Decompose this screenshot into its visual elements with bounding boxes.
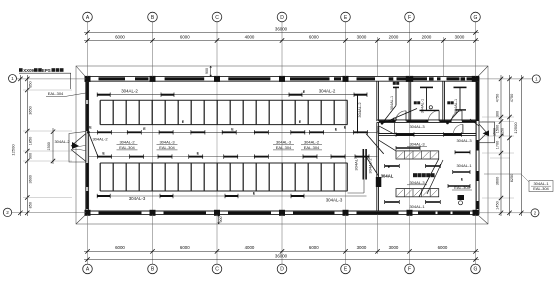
- bubble F top: [405, 12, 415, 22]
- svg-text:304AL-3: 304AL-3: [409, 124, 425, 129]
- svg-text:304AL-2: 304AL-2: [119, 139, 135, 144]
- room partition wall 1: [376, 81, 378, 121]
- svg-text:850: 850: [28, 81, 32, 87]
- svg-text:3000: 3000: [455, 35, 465, 40]
- leader to boxed label: [484, 173, 521, 175]
- left wall fill bars: [86, 82, 88, 100]
- right segment dimension line: [500, 75, 502, 216]
- corridor wall bar 2: [444, 133, 462, 135]
- bubble 2 right: [531, 209, 539, 217]
- svg-text:304AL-3: 304AL-3: [129, 196, 146, 201]
- svg-text:1500: 1500: [47, 142, 51, 150]
- tray stub r1b: [455, 151, 470, 153]
- annex outline: [479, 122, 495, 143]
- svg-text:304AL-2: 304AL-2: [304, 139, 320, 144]
- svg-text:6000: 6000: [115, 35, 125, 40]
- svg-text:1700: 1700: [496, 141, 500, 149]
- svg-text:304AL-2: 304AL-2: [319, 89, 336, 94]
- svg-text:304AL-3: 304AL-3: [276, 139, 292, 144]
- wiring junction room2: [446, 122, 449, 125]
- wire to mid line 2: [88, 132, 98, 156]
- left door vestibule: [69, 132, 86, 163]
- dim 900 top: [210, 66, 212, 76]
- EPS feeder note: [19, 68, 23, 72]
- dim 900 bottom: [218, 215, 220, 224]
- svg-text:D: D: [280, 15, 284, 21]
- bubble E top: [341, 12, 351, 22]
- bubble 1 right: [532, 75, 540, 83]
- label cabinet cn: [413, 173, 417, 177]
- svg-text:304AL-1: 304AL-1: [390, 96, 394, 110]
- busway line bottom: [97, 195, 367, 197]
- svg-text:304AL-2: 304AL-2: [54, 139, 70, 144]
- svg-text:304AL-2: 304AL-2: [357, 102, 362, 118]
- bubble E bottom: [341, 264, 351, 274]
- svg-text:304AL-3: 304AL-3: [159, 139, 175, 144]
- svg-text:1850: 1850: [28, 137, 32, 145]
- column G/1: [472, 76, 479, 82]
- exhaust fan room 2: [429, 77, 434, 80]
- distribution box E: [458, 195, 465, 200]
- wall fill block: [376, 177, 382, 187]
- svg-text:EPS: EPS: [42, 68, 51, 73]
- wiring diagonal corridor top: [379, 126, 394, 134]
- svg-text:G: G: [474, 15, 478, 21]
- room partition wall 3: [442, 81, 444, 121]
- left segment dimension line: [26, 75, 28, 216]
- light fixture room 3: [454, 86, 467, 88]
- ladder2 bracket: [348, 192, 365, 194]
- junction dot room2 door: [426, 120, 428, 122]
- svg-text:1500: 1500: [377, 126, 381, 134]
- lamp circle room2: [429, 106, 432, 109]
- busway line top: [97, 94, 367, 96]
- rooms south wall fill: [379, 120, 396, 122]
- corridor wall: [379, 133, 477, 135]
- svg-text:F: F: [408, 15, 411, 21]
- cable tray ladder row 1: [100, 100, 347, 124]
- column E/2: [343, 210, 349, 216]
- svg-text:304AL-1: 304AL-1: [456, 163, 472, 168]
- axis 1 line right: [479, 78, 532, 80]
- top wall lines: [85, 76, 479, 78]
- bubble 1 left: [9, 75, 17, 83]
- roof corner diagonal top-right: [476, 66, 489, 79]
- wiring diagonal cabinets 2: [427, 160, 443, 194]
- busway line mid-2: [89, 156, 378, 158]
- riser diagonal 1: [366, 134, 384, 154]
- column B/2: [150, 210, 156, 216]
- wiring run room2: [420, 109, 440, 111]
- bubble D top: [277, 12, 287, 22]
- svg-text:EAL-304: EAL-304: [533, 186, 549, 191]
- wiring junction room1: [381, 122, 384, 125]
- top sub extension 2: [443, 37, 445, 77]
- right wall fill bars: [477, 82, 479, 121]
- bottom overall dimension line 36000: [84, 259, 479, 261]
- column D/1: [279, 76, 285, 82]
- svg-text:6000: 6000: [180, 35, 190, 40]
- busway line mid-1: [89, 131, 378, 133]
- svg-text:4000: 4000: [245, 245, 255, 250]
- partition wall right section: [376, 122, 378, 211]
- rooms south wall: [377, 119, 476, 121]
- busway sections top: [97, 94, 110, 96]
- column E/1: [343, 76, 349, 82]
- switchgear row 2: [396, 189, 439, 197]
- busway riser drop: [357, 95, 359, 134]
- svg-text:6000: 6000: [309, 245, 319, 250]
- svg-text:2: 2: [6, 210, 9, 215]
- column D/2: [279, 210, 285, 216]
- svg-text:6000: 6000: [115, 245, 125, 250]
- busway sections bottom: [97, 195, 110, 197]
- svg-text:300: 300: [496, 111, 500, 117]
- bubble B top: [148, 12, 158, 22]
- room wiring diagonal 2: [448, 111, 460, 124]
- svg-text:3650: 3650: [28, 106, 32, 114]
- top segment dimension line: [84, 40, 479, 42]
- tray stub r1c: [385, 165, 400, 167]
- roof corner diagonal bottom-left: [76, 213, 88, 224]
- wiring diagonal corridor: [379, 140, 397, 151]
- svg-text:304AL-3: 304AL-3: [409, 141, 425, 146]
- bubble C top: [212, 12, 222, 22]
- svg-text:900: 900: [28, 153, 32, 159]
- tray stub r2b: [426, 201, 441, 203]
- top overall dimension line 36000: [84, 32, 479, 34]
- annex door leaf 2: [479, 133, 487, 141]
- bottom wall lines: [85, 210, 479, 212]
- svg-text:F: F: [408, 267, 411, 273]
- top wall fill bars: [99, 77, 126, 80]
- svg-text:3600: 3600: [28, 175, 32, 183]
- svg-text:6250: 6250: [510, 174, 514, 182]
- svg-text:12500: 12500: [11, 144, 16, 156]
- boxed label right 304AL-1 EAL-304: [529, 181, 553, 192]
- exhaust fan room 3: [461, 77, 466, 80]
- svg-text:850: 850: [28, 202, 32, 208]
- svg-text:EAL-304: EAL-304: [119, 145, 135, 150]
- bubble G top: [471, 12, 481, 22]
- axis 2 line left: [12, 211, 86, 213]
- annex wire diagonal: [470, 119, 479, 126]
- svg-text:36000: 36000: [275, 254, 288, 259]
- svg-text:4000: 4000: [245, 35, 255, 40]
- tray stub right mid: [453, 171, 470, 173]
- svg-text:304AL-3: 304AL-3: [456, 138, 472, 143]
- tray stub r1a: [396, 147, 420, 149]
- tray stub r2c: [448, 185, 470, 187]
- left total dimension line 12500: [19, 75, 21, 216]
- bubble F bottom: [405, 264, 415, 274]
- grid line F: [409, 81, 411, 211]
- svg-text:D: D: [280, 267, 284, 273]
- svg-text:EAL-304: EAL-304: [48, 91, 64, 96]
- door room 1: [405, 111, 407, 122]
- svg-text:900: 900: [205, 68, 209, 74]
- svg-text:900: 900: [219, 217, 223, 223]
- grid line A: [87, 81, 89, 211]
- bubble D bottom: [277, 264, 287, 274]
- svg-text:XX09: XX09: [23, 68, 34, 73]
- column C/1: [214, 76, 220, 82]
- svg-text:304AL-2: 304AL-2: [92, 137, 108, 142]
- svg-text:3600: 3600: [496, 177, 500, 185]
- grid line G: [475, 81, 477, 211]
- junction node left: [87, 131, 90, 134]
- door room 3: [461, 111, 463, 122]
- svg-text:1450: 1450: [496, 201, 500, 209]
- right extension lines: [482, 116, 514, 118]
- bottom sub extension: [377, 215, 379, 254]
- axis 2 line right: [479, 212, 531, 214]
- roof outline: [76, 66, 488, 224]
- annex door leaf 1: [479, 124, 487, 133]
- svg-text:EAL-304: EAL-304: [304, 145, 320, 150]
- exhaust fan room 1: [389, 77, 394, 80]
- svg-text:2150: 2150: [501, 128, 505, 136]
- svg-text:C: C: [215, 267, 219, 273]
- svg-text:3000: 3000: [357, 35, 367, 40]
- light fixture room 1: [393, 86, 399, 88]
- bubble A bottom: [83, 264, 93, 274]
- bubble G bottom: [471, 264, 481, 274]
- room wiring diagonal 1: [382, 106, 396, 124]
- column B/1: [150, 76, 156, 82]
- room partition wall 2: [408, 81, 410, 121]
- vertical busway bars: [362, 149, 364, 180]
- svg-text:3000: 3000: [389, 245, 399, 250]
- svg-text:304AL-3: 304AL-3: [326, 197, 343, 202]
- svg-text:4750: 4750: [510, 94, 514, 102]
- roof corner diagonal bottom-right: [476, 213, 489, 224]
- svg-text:2000: 2000: [422, 35, 432, 40]
- bottom segment dimension line: [84, 250, 479, 252]
- svg-text:C: C: [215, 15, 219, 21]
- wiring run room3: [456, 109, 467, 111]
- right wall lines: [475, 77, 477, 215]
- column F/1: [406, 76, 413, 82]
- svg-text:4750: 4750: [496, 94, 500, 102]
- svg-text:304AL-3: 304AL-3: [409, 180, 425, 185]
- column F/2: [407, 210, 413, 216]
- lamp circle room1 door: [393, 118, 396, 121]
- riser diagonal 2: [366, 157, 379, 177]
- right total line 12500: [520, 75, 522, 216]
- annex door arrow: [483, 130, 489, 136]
- svg-text:304AL-1: 304AL-1: [454, 99, 458, 113]
- svg-text:3000: 3000: [357, 245, 367, 250]
- door room 2: [438, 111, 440, 122]
- svg-text:6000: 6000: [309, 35, 319, 40]
- tray stub r2a: [385, 201, 400, 203]
- column A/1: [85, 76, 91, 82]
- room wiring diagonal long: [382, 109, 417, 124]
- column G/2: [473, 210, 479, 216]
- roof corner diagonal top-left: [76, 66, 88, 79]
- svg-text:304AL: 304AL: [381, 173, 394, 178]
- corridor stub vertical: [393, 122, 395, 134]
- svg-text:6000: 6000: [180, 245, 190, 250]
- svg-text:12500: 12500: [513, 122, 518, 134]
- corridor wall bar 1: [396, 133, 414, 135]
- junction dot room1 door: [393, 119, 395, 121]
- corridor door: [462, 124, 464, 133]
- svg-text:EAL-304: EAL-304: [159, 145, 175, 150]
- bubble C bottom: [212, 264, 222, 274]
- svg-text:EAL-304: EAL-304: [276, 145, 292, 150]
- svg-text:G: G: [474, 267, 478, 273]
- svg-text:6000: 6000: [438, 245, 448, 250]
- axis stems bottom: [87, 215, 89, 265]
- bottom wall fill bars: [99, 212, 142, 215]
- svg-text:304AL-1: 304AL-1: [409, 204, 425, 209]
- svg-text:36000: 36000: [275, 26, 288, 31]
- left wall lines: [85, 77, 87, 215]
- tray stub r1d: [426, 165, 441, 167]
- wiring diagonal cabinets: [419, 159, 439, 197]
- bubble 2 left: [3, 208, 11, 216]
- grid line E: [345, 81, 347, 211]
- grid line D: [281, 81, 283, 211]
- switchgear row 1: [396, 151, 439, 159]
- cable tray ladder row 2: [100, 163, 347, 191]
- column A/2: [85, 210, 91, 216]
- bubble B bottom: [148, 264, 158, 274]
- left extension lines: [23, 89, 72, 91]
- light fixture room 2: [420, 86, 433, 88]
- svg-text:2000: 2000: [389, 35, 399, 40]
- busway sections mid-2: [98, 156, 112, 158]
- svg-text:304AL-3: 304AL-3: [353, 155, 358, 171]
- svg-text:304AL-2: 304AL-2: [121, 89, 138, 94]
- grid line C: [216, 81, 218, 211]
- EPS leader: [70, 73, 72, 89]
- svg-text:1500: 1500: [493, 128, 497, 136]
- top sub extension 1: [377, 37, 379, 77]
- column C/2: [214, 210, 220, 216]
- right second dimension line: [509, 75, 511, 216]
- axis 1 line left: [17, 78, 86, 80]
- door dimension 1500: [52, 128, 54, 164]
- busway sections mid-1: [98, 131, 112, 133]
- axis stems top: [87, 22, 89, 77]
- grid line B: [152, 81, 154, 211]
- bubble A top: [83, 12, 93, 22]
